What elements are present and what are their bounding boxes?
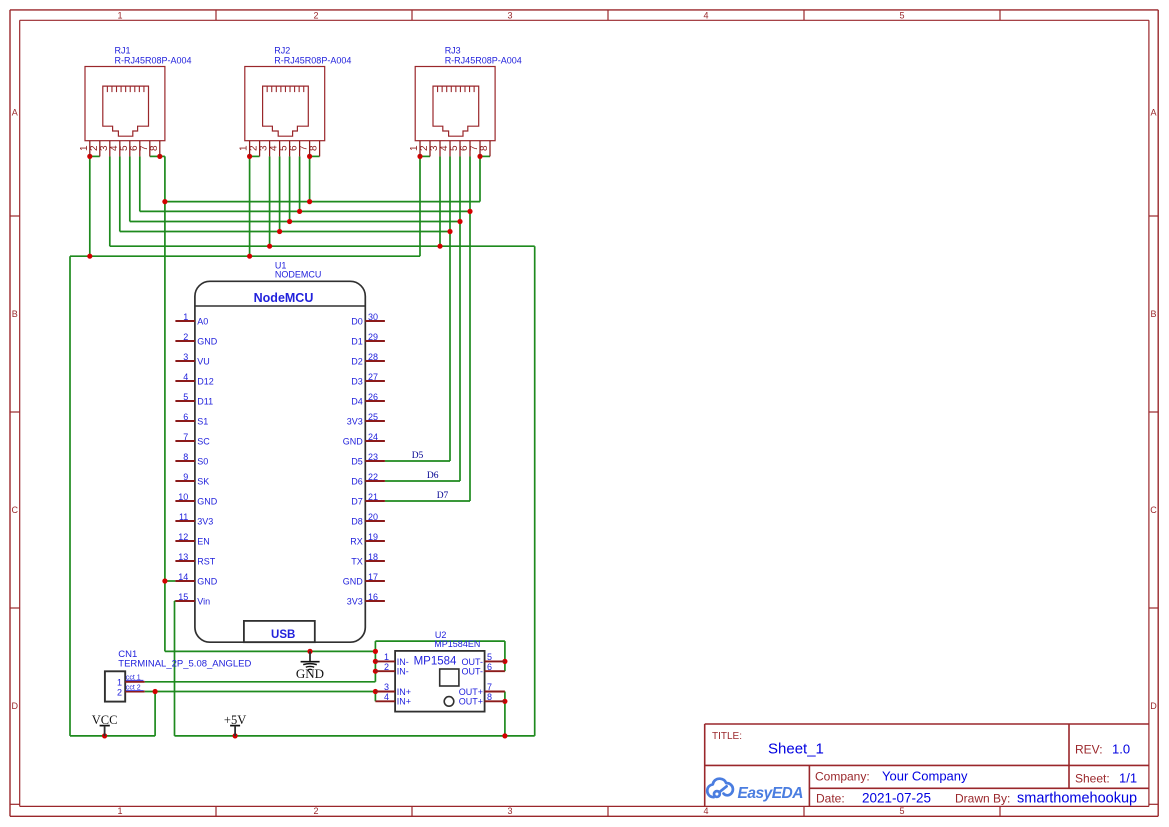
- svg-text:GND: GND: [197, 576, 218, 586]
- svg-text:6: 6: [487, 662, 492, 672]
- svg-text:D5: D5: [351, 456, 363, 466]
- svg-text:C: C: [1150, 505, 1157, 515]
- svg-text:9: 9: [183, 472, 188, 482]
- svg-text:D: D: [1150, 701, 1157, 711]
- svg-text:11: 11: [179, 512, 188, 522]
- svg-text:MP1584: MP1584: [414, 656, 457, 668]
- svg-text:3: 3: [507, 806, 512, 816]
- svg-text:R-RJ45R08P-A004: R-RJ45R08P-A004: [115, 55, 192, 65]
- svg-text:MP1584EN: MP1584EN: [434, 639, 480, 649]
- svg-text:3V3: 3V3: [347, 416, 363, 426]
- svg-text:RX: RX: [350, 536, 363, 546]
- svg-text:8: 8: [487, 692, 492, 702]
- svg-text:17: 17: [368, 572, 378, 582]
- svg-text:10: 10: [178, 492, 188, 502]
- svg-text:2021-07-25: 2021-07-25: [862, 791, 931, 806]
- svg-text:2: 2: [384, 662, 389, 672]
- svg-text:8: 8: [479, 145, 490, 151]
- svg-text:7: 7: [487, 682, 492, 692]
- svg-text:2: 2: [117, 688, 122, 698]
- svg-text:OUT-: OUT-: [462, 657, 484, 667]
- svg-text:TERMINAL_2P_5.08_ANGLED: TERMINAL_2P_5.08_ANGLED: [118, 658, 251, 669]
- svg-text:D11: D11: [197, 396, 213, 406]
- svg-text:Sheet_1: Sheet_1: [768, 741, 824, 758]
- svg-text:20: 20: [368, 512, 378, 522]
- svg-text:5: 5: [899, 10, 904, 20]
- svg-text:IN-: IN-: [397, 667, 409, 677]
- svg-text:GND: GND: [343, 436, 364, 446]
- svg-text:8: 8: [183, 452, 188, 462]
- svg-text:30: 30: [368, 312, 378, 322]
- svg-text:26: 26: [368, 392, 378, 402]
- svg-text:D5: D5: [412, 451, 424, 461]
- svg-text:24: 24: [368, 432, 378, 442]
- svg-text:EN: EN: [197, 536, 210, 546]
- svg-text:TX: TX: [351, 556, 363, 566]
- svg-text:4: 4: [703, 806, 708, 816]
- svg-text:OUT-: OUT-: [462, 667, 484, 677]
- svg-text:Sheet:: Sheet:: [1075, 772, 1110, 786]
- svg-text:14: 14: [178, 572, 188, 582]
- svg-text:D6: D6: [351, 476, 363, 486]
- svg-text:EasyEDA: EasyEDA: [738, 785, 804, 802]
- svg-text:28: 28: [368, 352, 378, 362]
- svg-text:B: B: [12, 309, 18, 319]
- svg-text:TITLE:: TITLE:: [712, 731, 742, 742]
- svg-text:3: 3: [384, 682, 389, 692]
- svg-text:IN+: IN+: [397, 697, 411, 707]
- svg-text:A: A: [12, 108, 18, 118]
- svg-text:GND: GND: [343, 576, 364, 586]
- svg-text:7: 7: [183, 432, 188, 442]
- svg-text:5: 5: [899, 806, 904, 816]
- svg-text:6: 6: [183, 412, 188, 422]
- svg-text:Vin: Vin: [197, 596, 210, 606]
- svg-text:A: A: [1150, 108, 1156, 118]
- svg-text:OUT+: OUT+: [459, 687, 483, 697]
- svg-text:23: 23: [368, 452, 378, 462]
- svg-text:IN+: IN+: [397, 687, 411, 697]
- svg-text:2: 2: [183, 332, 188, 342]
- svg-text:+5V: +5V: [224, 713, 246, 727]
- svg-text:19: 19: [368, 532, 378, 542]
- svg-text:R-RJ45R08P-A004: R-RJ45R08P-A004: [274, 55, 351, 65]
- svg-text:RJ1: RJ1: [115, 46, 131, 56]
- svg-text:4: 4: [183, 372, 188, 382]
- svg-text:SC: SC: [197, 436, 210, 446]
- svg-text:RJ2: RJ2: [274, 46, 290, 56]
- svg-text:1: 1: [384, 652, 389, 662]
- svg-text:RST: RST: [197, 556, 216, 566]
- svg-text:D4: D4: [351, 396, 363, 406]
- svg-text:D2: D2: [351, 356, 363, 366]
- svg-text:D7: D7: [437, 491, 449, 501]
- svg-text:18: 18: [368, 552, 378, 562]
- svg-text:15: 15: [178, 592, 188, 602]
- svg-text:D6: D6: [427, 471, 439, 481]
- svg-text:VU: VU: [197, 356, 210, 366]
- svg-text:21: 21: [368, 492, 378, 502]
- svg-text:29: 29: [368, 332, 378, 342]
- svg-text:GND: GND: [197, 336, 218, 346]
- svg-text:3: 3: [507, 10, 512, 20]
- svg-text:D1: D1: [351, 336, 363, 346]
- svg-text:Your Company: Your Company: [882, 769, 968, 784]
- svg-text:IN-: IN-: [397, 657, 409, 667]
- svg-text:5: 5: [183, 392, 188, 402]
- svg-text:4: 4: [384, 692, 389, 702]
- svg-text:D0: D0: [351, 316, 363, 326]
- svg-text:13: 13: [178, 552, 188, 562]
- svg-text:16: 16: [368, 592, 378, 602]
- svg-text:VCC: VCC: [92, 713, 118, 727]
- svg-text:R-RJ45R08P-A004: R-RJ45R08P-A004: [445, 55, 522, 65]
- svg-text:smarthomehookup: smarthomehookup: [1017, 791, 1137, 807]
- svg-text:1: 1: [117, 10, 122, 20]
- svg-text:GND: GND: [296, 666, 324, 681]
- svg-text:REV:: REV:: [1075, 743, 1103, 757]
- svg-text:S0: S0: [197, 456, 208, 466]
- svg-text:SK: SK: [197, 476, 209, 486]
- svg-text:1: 1: [117, 806, 122, 816]
- svg-text:Drawn By:: Drawn By:: [955, 792, 1010, 806]
- svg-text:D8: D8: [351, 516, 363, 526]
- svg-text:NodeMCU: NodeMCU: [254, 291, 314, 305]
- svg-text:D12: D12: [197, 376, 214, 386]
- svg-text:8: 8: [309, 145, 320, 151]
- svg-text:D3: D3: [351, 376, 363, 386]
- svg-text:Date:: Date:: [816, 792, 845, 806]
- svg-text:27: 27: [368, 372, 378, 382]
- svg-text:5: 5: [487, 652, 492, 662]
- svg-text:USB: USB: [271, 629, 295, 641]
- svg-text:3V3: 3V3: [197, 516, 213, 526]
- svg-text:D7: D7: [351, 496, 363, 506]
- svg-text:1/1: 1/1: [1119, 771, 1137, 786]
- svg-text:1: 1: [117, 677, 122, 687]
- svg-text:3V3: 3V3: [347, 596, 363, 606]
- svg-text:GND: GND: [197, 496, 218, 506]
- svg-text:D: D: [12, 701, 19, 711]
- svg-text:NODEMCU: NODEMCU: [275, 270, 322, 280]
- svg-text:C: C: [12, 505, 19, 515]
- svg-text:25: 25: [368, 412, 378, 422]
- svg-text:Company:: Company:: [815, 770, 870, 784]
- svg-text:RJ3: RJ3: [445, 46, 461, 56]
- svg-text:B: B: [1150, 309, 1156, 319]
- svg-text:S1: S1: [197, 416, 208, 426]
- svg-text:12: 12: [178, 532, 188, 542]
- svg-text:2: 2: [313, 806, 318, 816]
- svg-text:8: 8: [149, 145, 160, 151]
- svg-text:1.0: 1.0: [1112, 742, 1130, 757]
- svg-text:A0: A0: [197, 316, 208, 326]
- svg-text:2: 2: [313, 10, 318, 20]
- svg-text:3: 3: [183, 352, 188, 362]
- svg-text:22: 22: [368, 472, 378, 482]
- svg-text:OUT+: OUT+: [459, 697, 483, 707]
- svg-text:1: 1: [183, 312, 188, 322]
- svg-text:4: 4: [703, 10, 708, 20]
